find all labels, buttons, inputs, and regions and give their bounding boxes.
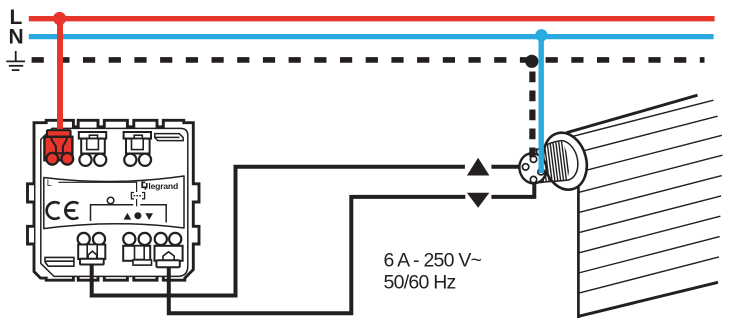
shutter curtain slats (552, 116, 723, 293)
roller tube top edge (567, 95, 698, 133)
wire blue drop to motor (539, 36, 544, 174)
switch frame outer (34, 120, 199, 280)
connector pin bottom (530, 176, 536, 182)
connector pin left (522, 164, 528, 170)
connector pin top (530, 156, 536, 162)
wire red drop to switch (57, 16, 63, 134)
motor connector (516, 150, 550, 186)
switch label panel (44, 176, 184, 229)
terminal bottom middle (123, 233, 151, 265)
panel internal line to bracket (136, 199, 138, 206)
svg-text:legrand: legrand (148, 181, 178, 191)
blanking plate top right (155, 134, 183, 141)
switch inner outline (41, 128, 188, 276)
wire PE dashed line (32, 57, 705, 63)
ground (6, 51, 25, 70)
wire L line (red) (29, 16, 715, 21)
svg-text:50/60 Hz: 50/60 Hz (384, 272, 456, 294)
roller end cap outer ring (537, 128, 593, 195)
terminal bottom right (155, 233, 183, 267)
node junction red (53, 12, 66, 25)
terminal bottom left (78, 233, 106, 265)
svg-text:L: L (47, 178, 52, 188)
inner ring right arc (562, 141, 578, 181)
terminal red L input (44, 130, 73, 165)
svg-text:6 A - 250 V~: 6 A - 250 V~ (384, 249, 482, 271)
blanking slot bottom left (45, 257, 74, 266)
wire switch to motor up (92, 167, 520, 296)
wire N line (blue) (29, 34, 714, 39)
svg-text:N: N (9, 26, 24, 49)
motor head band bottom edge (534, 180, 567, 183)
shutter curtain bottom edge (578, 282, 718, 316)
panel up-stop-down symbols (124, 213, 132, 220)
node junction blue (535, 29, 547, 41)
motor head band top edge (532, 141, 562, 154)
wire dashed drop to motor (529, 72, 535, 158)
roller end cap inner ring (545, 137, 583, 184)
panel bracket (91, 205, 167, 223)
wire switch to motor down (169, 183, 535, 313)
legrand logo (141, 181, 178, 191)
terminal top middle (79, 132, 106, 166)
shutter curtain left edge (577, 183, 580, 319)
connector pin right (538, 169, 544, 175)
CE marking (47, 202, 79, 219)
switch frame left bumps (28, 184, 35, 244)
terminal top right (124, 132, 151, 166)
roller tube top inner line (571, 100, 714, 137)
arrow down (467, 193, 490, 208)
node junction dashed (525, 55, 538, 68)
panel indicator circle (107, 197, 114, 204)
panel connector icon (131, 193, 144, 199)
arrow up (467, 158, 490, 176)
motor head crescent (562, 141, 578, 181)
